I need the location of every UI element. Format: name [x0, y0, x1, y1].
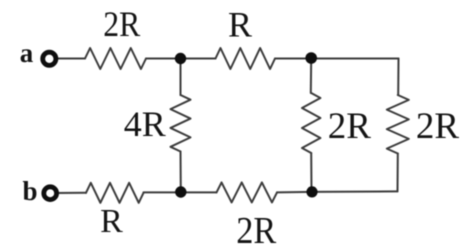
wire: right vertical bottom stub — [397, 154, 399, 192]
wire: terminal a to resistor 2R — [56, 58, 85, 60]
wire: node 3 to resistor 2R bottom — [144, 191, 217, 193]
node junction dot (top right) — [305, 52, 317, 64]
resistor R (bottom) zigzag — [86, 183, 144, 203]
svg-text:2R: 2R — [103, 4, 140, 44]
wire: terminal b to resistor R — [57, 192, 86, 194]
resistor R (top) zigzag — [216, 48, 276, 69]
wire: node 1 to resistor 4R stub — [180, 59, 182, 96]
wire: node 2 to middle 2R stub — [310, 59, 312, 94]
resistor 2R (middle) vertical zigzag — [302, 93, 320, 153]
wire: right vertical top stub — [397, 59, 399, 96]
svg-text:R: R — [100, 203, 123, 240]
resistor 2R (far right) vertical zigzag — [387, 95, 409, 154]
svg-text:a: a — [20, 38, 34, 68]
resistor 2R (top left) zigzag — [85, 48, 146, 69]
wire: R to node 2 to top-right corner — [275, 58, 399, 60]
node junction dot (bottom left) — [175, 186, 186, 197]
svg-text:R: R — [228, 5, 252, 45]
svg-text:2R: 2R — [236, 210, 277, 246]
node junction dot (bottom right) — [306, 186, 317, 197]
resistor 4R vertical zigzag — [171, 95, 191, 152]
svg-text:4R: 4R — [124, 104, 166, 144]
resistor 2R (bottom) zigzag — [217, 182, 278, 202]
terminal b open circle — [44, 187, 57, 200]
wire: 2R to node 1 to resistor R — [146, 58, 216, 60]
svg-text:2R: 2R — [328, 106, 372, 147]
wire: 4R bottom stub to node 3 — [180, 152, 182, 193]
wire: bottom rail right (corner to node 4) — [312, 190, 398, 193]
svg-text:b: b — [22, 176, 37, 206]
wire: node 4 to resistor 2R bottom — [277, 191, 312, 194]
svg-text:2R: 2R — [416, 106, 460, 147]
terminal a open circle — [43, 52, 56, 65]
wire: middle 2R bottom stub to node 4 — [310, 153, 312, 192]
node junction dot (top left) — [175, 53, 186, 64]
